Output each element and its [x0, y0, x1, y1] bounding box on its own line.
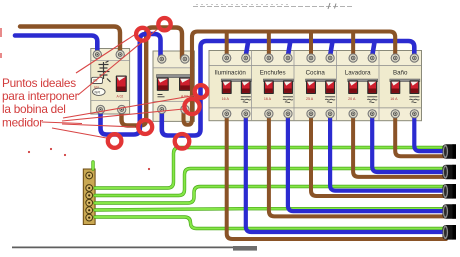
main breaker toggle bar — [157, 75, 193, 78]
phase output wire circuit 4 — [269, 119, 446, 217]
phase bus drop to breaker 4 — [351, 32, 355, 58]
cable connector circuit 4 — [443, 165, 457, 180]
svg-text:Cocina: Cocina — [306, 70, 326, 77]
phase link wire RCD to main breaker — [122, 28, 183, 126]
neutral output wire circuit 1 — [414, 119, 446, 152]
svg-text:A 02: A 02 — [117, 95, 124, 99]
breaker Cocina terminal screws — [307, 54, 334, 118]
neutral bus drop to breaker 4 — [372, 43, 375, 58]
RCD terminal screws — [93, 50, 126, 113]
pointer line to node B — [78, 30, 157, 96]
phase output wire circuit 2 — [353, 119, 446, 177]
RCD switch lever — [116, 76, 127, 99]
pointer line to node G — [63, 96, 194, 119]
breaker Cocina levers — [306, 80, 335, 102]
node E: RCD output marker — [108, 134, 122, 148]
breaker Bano label — [393, 70, 408, 77]
neutral link wire RCD to main breaker — [101, 34, 161, 135]
main breaker Q1 two-pole — [153, 51, 194, 121]
breaker Iluminacion toggle bar — [221, 79, 251, 82]
svg-text:Iluminación: Iluminación — [215, 70, 247, 77]
pointer line to node A — [76, 34, 136, 73]
breaker Bano terminal screws — [391, 54, 418, 118]
ground terminal bar — [83, 169, 95, 225]
neutral output wire circuit 4 — [288, 119, 446, 212]
RCD N-test oval button — [93, 88, 106, 95]
breaker Iluminacion levers — [222, 80, 251, 102]
earth wire to circuit 2 Enchufes — [95, 209, 445, 210]
terminal screws over wires — [93, 50, 418, 118]
phase supply wire into RCD — [20, 27, 120, 54]
pointer dash from medidor — [42, 122, 82, 124]
svg-text:medidor: medidor — [2, 115, 43, 129]
breaker Iluminacion label — [215, 70, 247, 77]
svg-text:25 A: 25 A — [306, 97, 314, 101]
earth wire to circuit 5 Bano — [95, 148, 445, 189]
node D: neutral bus tap marker — [175, 134, 190, 149]
breaker Bano toggle bar — [390, 79, 420, 82]
cable connector circuit 5 — [443, 144, 457, 159]
svg-text:16 A: 16 A — [390, 97, 398, 101]
svg-text:Lavadora: Lavadora — [345, 70, 371, 77]
main breaker levers — [157, 77, 191, 98]
breaker Bano levers — [390, 80, 419, 102]
node C: phase bus tap marker — [184, 99, 199, 114]
svg-text:16 A: 16 A — [222, 97, 230, 101]
breaker Enchufes label — [260, 70, 286, 77]
phase output wire circuit 1 — [395, 119, 446, 157]
earth wire to circuit 4 Lavadora — [95, 169, 445, 196]
earth wire stub to ground bar — [91, 162, 94, 169]
svg-text:para interponer: para interponer — [2, 89, 79, 103]
neutral output wire circuit 5 — [246, 119, 446, 233]
breaker Cocina label — [306, 70, 326, 77]
pointer line to node E — [52, 128, 107, 138]
RCD rating label — [94, 85, 99, 89]
node G: neutral riser marker — [195, 85, 208, 98]
RCD differential switch U1 — [91, 49, 130, 115]
breaker Enchufes levers — [264, 80, 293, 102]
node F: link loop marker — [138, 120, 152, 134]
phase output wire circuit 3 — [311, 119, 446, 197]
breaker Lavadora toggle bar — [348, 79, 378, 82]
faint ghost text artifact — [193, 3, 352, 9]
breaker Enchufes toggle bar — [263, 79, 293, 82]
phase bus wire from main breaker — [184, 32, 396, 125]
breaker Enchufes terminal screws — [265, 54, 292, 118]
neutral bus drop to breaker 2 — [288, 43, 291, 58]
cable connector circuit 2 — [443, 204, 457, 219]
annotation text: puntos ideales — [2, 76, 79, 130]
phase output wire circuit 5 — [227, 119, 446, 240]
breaker Lavadora terminal screws — [349, 54, 376, 118]
neutral output wire circuit 2 — [372, 119, 446, 173]
svg-text:Puntos ideales: Puntos ideales — [2, 76, 76, 90]
neutral bus drop to breaker 1 — [246, 43, 249, 58]
phase bus drop to breaker 2 — [267, 32, 271, 58]
earth wire to circuit 3 Cocina — [95, 187, 445, 204]
pointer line to node C — [62, 109, 184, 121]
neutral supply wire into RCD — [15, 36, 97, 54]
neutral bus wire from main breaker — [162, 41, 414, 136]
cable connector circuit 3 — [443, 184, 457, 199]
earth wire to circuit 1 Iluminacion — [95, 217, 445, 229]
baseline rule — [12, 246, 257, 251]
breaker Iluminacion terminal screws — [223, 54, 250, 118]
node B: phase link marker — [158, 18, 170, 30]
breaker Cocina toggle bar — [306, 79, 336, 82]
distribution breaker panel — [209, 51, 422, 121]
breaker Lavadora label — [345, 70, 371, 77]
svg-text:16 A: 16 A — [264, 97, 272, 101]
phase bus drop to breaker 3 — [309, 32, 313, 58]
pointer line to node F — [62, 124, 135, 127]
svg-text:Baño: Baño — [393, 70, 408, 77]
svg-text:20 A: 20 A — [348, 97, 356, 101]
RCD test button — [92, 77, 103, 83]
cable connector circuit 1 — [443, 225, 457, 240]
svg-text:Enchufes: Enchufes — [260, 70, 286, 77]
phase bus drop to breaker 1 — [225, 32, 229, 58]
svg-text:N≠t: N≠t — [95, 90, 101, 94]
node A: neutral link marker — [136, 28, 149, 41]
RCD trip mechanism symbol — [97, 61, 111, 82]
neutral output wire circuit 3 — [330, 119, 446, 191]
main breaker terminal screws — [158, 55, 189, 114]
neutral bus drop to breaker 3 — [330, 43, 333, 58]
svg-text:la bobina del: la bobina del — [2, 102, 66, 116]
red speck marks — [0, 28, 150, 170]
breaker Lavadora levers — [348, 80, 377, 102]
